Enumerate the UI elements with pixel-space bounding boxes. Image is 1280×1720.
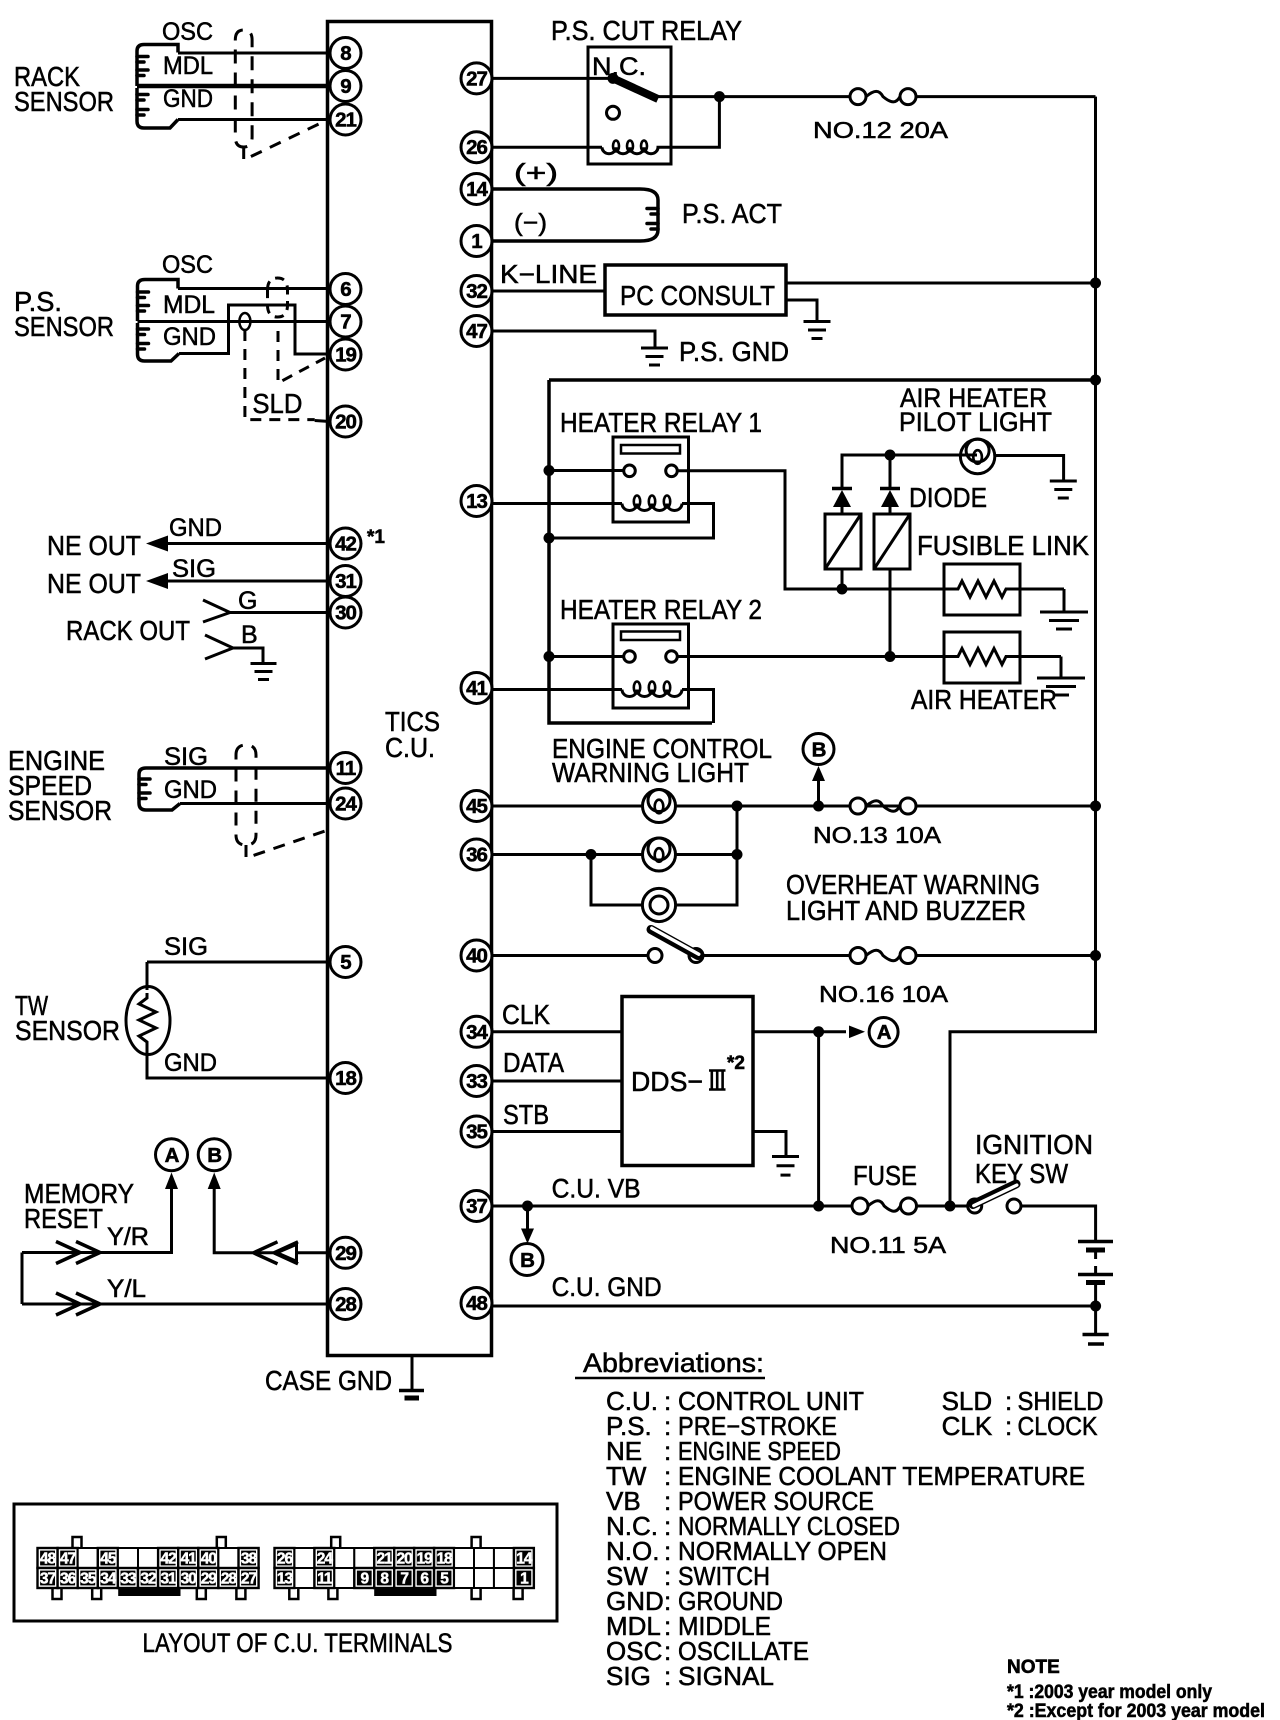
svg-text:29: 29 (201, 1571, 218, 1588)
svg-text:6: 6 (340, 278, 351, 301)
svg-text:MDL: MDL (163, 52, 213, 80)
ess shield drain (dashed) to pin 24 (246, 830, 328, 858)
double chevron on pin 29 wire pointing left (254, 1242, 278, 1264)
svg-text:SENSOR: SENSOR (14, 311, 114, 342)
wire pin 42 to NE OUT GND (166, 542, 330, 545)
wire relay coil feed loop (671, 97, 719, 148)
wire rack OSC to pin 8 (178, 52, 330, 55)
tw sensor thermistor ellipse (126, 987, 170, 1055)
junction DDS output junction (813, 1026, 824, 1037)
wire D1 bottom lead (841, 569, 844, 589)
svg-text:GND: GND (164, 776, 217, 804)
svg-text:36: 36 (60, 1571, 77, 1588)
wire pin 33 DATA to DDS (492, 1080, 622, 1083)
svg-text:SIG: SIG (606, 1661, 651, 1691)
wire heater left rail + bottom (549, 380, 712, 723)
svg-text:30: 30 (335, 602, 356, 625)
svg-text:48: 48 (40, 1551, 57, 1568)
wire branch to buzzer left (591, 855, 642, 906)
arrow up to B (812, 766, 825, 781)
svg-text:HEATER RELAY 2: HEATER RELAY 2 (560, 594, 762, 625)
pin 24 (330, 788, 361, 819)
junction lamp1 junction (732, 801, 743, 812)
svg-text:B: B (812, 739, 826, 762)
svg-text::: : (664, 1661, 671, 1691)
CASE GND label (265, 1365, 392, 1396)
wire Y/L wire to pin 28 (22, 1303, 330, 1306)
relay contact pivot dot (608, 73, 619, 84)
svg-text:NE OUT: NE OUT (47, 568, 141, 599)
svg-text:(+): (+) (514, 159, 558, 187)
svg-text:P.S. ACT: P.S. ACT (682, 198, 782, 229)
svg-text:KEY SW: KEY SW (975, 1158, 1068, 1189)
svg-text:P.S. GND: P.S. GND (679, 336, 789, 367)
diode D1 (832, 489, 852, 515)
relay contact arm (closed) (613, 78, 658, 99)
svg-text:SENSOR: SENSOR (15, 1015, 120, 1046)
ps shield capsule (dashed) (268, 278, 288, 317)
battery (1078, 1242, 1113, 1345)
case ground symbol (399, 1355, 424, 1398)
wire relay1 contact feed (549, 469, 624, 472)
svg-text:SIG: SIG (172, 555, 216, 583)
svg-text:35: 35 (80, 1571, 97, 1588)
junction pin36 branch junction (586, 849, 597, 860)
ground air heater (1037, 678, 1085, 695)
svg-text:GND: GND (164, 1049, 217, 1077)
wire pin 27 to relay contact (492, 77, 613, 80)
svg-text:*2: *2 (727, 1053, 745, 1074)
svg-text:SIGNAL: SIGNAL (678, 1661, 774, 1691)
svg-text:A: A (165, 1144, 180, 1167)
svg-text:13: 13 (277, 1571, 294, 1588)
svg-text:19: 19 (417, 1551, 434, 1568)
svg-text:DIODE: DIODE (909, 482, 987, 513)
overheat buzzer (double circle) (642, 888, 675, 921)
svg-text:SENSOR: SENSOR (14, 86, 114, 117)
ground DDS (772, 1157, 799, 1176)
wire fusible link ground lead (1063, 589, 1066, 611)
svg-text:38: 38 (241, 1551, 258, 1568)
svg-text:7: 7 (340, 311, 351, 334)
wire fuse NO.11 to key switch (917, 1205, 969, 1208)
svg-text:48: 48 (466, 1292, 487, 1315)
wire pin 40 to switch (492, 954, 648, 957)
pin 5 (330, 947, 361, 978)
svg-text:GND: GND (163, 85, 213, 113)
wire pin 34 CLK to DDS (492, 1030, 622, 1033)
svg-text:42: 42 (335, 533, 356, 556)
heater relay 2 box (613, 624, 689, 708)
pin 36 (461, 839, 492, 870)
svg-text:30: 30 (181, 1571, 197, 1588)
svg-text:27: 27 (241, 1571, 257, 1588)
svg-text:42: 42 (161, 1551, 177, 1568)
svg-text:47: 47 (466, 320, 487, 343)
svg-text:K−LINE: K−LINE (500, 259, 597, 289)
wire tw top lead (146, 962, 149, 990)
wire SLD to pin 20 solid (315, 421, 330, 422)
arrow NE OUT SIG (146, 573, 168, 589)
TICS C.U. control unit box (328, 22, 492, 1356)
svg-text:WARNING LIGHT: WARNING LIGHT (552, 757, 749, 788)
svg-text:A: A (877, 1021, 892, 1044)
pin 20 (330, 406, 361, 437)
open triangle arrow on pin 29 wire (277, 1244, 297, 1261)
pin 34 (461, 1016, 492, 1047)
SLD dashed wire to pin 20 (245, 330, 315, 420)
svg-text:5: 5 (340, 951, 351, 974)
junction bus x heater feed (1090, 375, 1101, 386)
svg-text:LIGHT AND BUZZER: LIGHT AND BUZZER (786, 895, 1026, 926)
wire fuse NO.16 to bus (916, 954, 1096, 957)
svg-text:32: 32 (140, 1571, 156, 1588)
svg-text::: : (1005, 1411, 1012, 1441)
label TICS C.U. (385, 706, 440, 763)
svg-text:*1: *1 (367, 527, 385, 548)
connector layout outer box (14, 1504, 557, 1621)
abbreviation list column 1 (606, 1386, 1085, 1691)
wire B arrow stem (817, 780, 820, 806)
junction relay output junction (714, 91, 725, 102)
pin 6 (330, 274, 361, 305)
svg-text:CASE GND: CASE GND (265, 1365, 392, 1396)
ground P.S. GND (641, 348, 668, 365)
junction rail x relay1 contact (544, 465, 555, 476)
svg-text:LAYOUT OF C.U. TERMINALS: LAYOUT OF C.U. TERMINALS (143, 1628, 453, 1658)
wire relay2 contact feed (549, 655, 624, 658)
PC CONSULT box (605, 265, 786, 315)
wire PC CONSULT to bus (786, 282, 1096, 285)
label IGNITION KEY SW (975, 1129, 1093, 1189)
wire pin 29 wire to B (214, 1187, 330, 1253)
wire pin 32 K-LINE (492, 290, 605, 293)
svg-text:G: G (238, 587, 257, 615)
label RACK SENSOR (14, 61, 114, 117)
svg-text:31: 31 (335, 570, 356, 593)
svg-text:11: 11 (336, 757, 356, 780)
svg-text:37: 37 (466, 1195, 487, 1218)
chevrons on Y/L wire (56, 1293, 80, 1315)
fusible link box (944, 564, 1020, 615)
ess shield capsule (dashed) (236, 745, 256, 845)
pilot light bulb (960, 439, 994, 474)
svg-text:B: B (241, 621, 258, 649)
label TW SENSOR (15, 990, 120, 1046)
pin 48 (461, 1288, 492, 1319)
svg-text:B: B (520, 1249, 534, 1272)
svg-text:CLOCK: CLOCK (1018, 1411, 1099, 1441)
wire pin 31 to NE OUT SIG (166, 580, 330, 583)
wire PC CONSULT ground lead (786, 300, 817, 321)
svg-text:34: 34 (466, 1021, 488, 1044)
wire diode2 top (889, 455, 892, 489)
pin 47 (461, 316, 492, 347)
DDS-III box (622, 997, 753, 1166)
svg-text:21: 21 (335, 109, 356, 132)
svg-text:24: 24 (335, 793, 357, 816)
svg-text:SENSOR: SENSOR (8, 795, 112, 826)
arrow up to B (208, 1173, 221, 1190)
svg-text:Y/L: Y/L (107, 1275, 146, 1303)
NOTE block (1007, 1657, 1265, 1720)
pin 29 (330, 1237, 361, 1268)
pin 40 (461, 940, 492, 971)
wire A tap down to VB line (817, 1032, 820, 1206)
svg-text:36: 36 (466, 844, 487, 867)
warning lamp 1 (643, 790, 676, 823)
wire key switch to battery (1021, 1206, 1096, 1240)
svg-text:(−): (−) (514, 209, 547, 237)
dropping resistor box D2 (874, 514, 910, 569)
ignition key switch contacts (968, 1199, 982, 1213)
wire pin 26 to relay coil (492, 146, 602, 149)
chevrons on Y/R wire (56, 1242, 80, 1264)
svg-text:41: 41 (181, 1551, 198, 1568)
svg-text:RACK OUT: RACK OUT (66, 615, 190, 646)
svg-text:45: 45 (466, 795, 487, 818)
pin 26 (461, 132, 492, 163)
svg-text:P.S. CUT RELAY: P.S. CUT RELAY (551, 15, 742, 46)
shield drain wire to pin 21 (dashed) (244, 121, 325, 160)
rack sensor shield (dashed capsule) (235, 30, 252, 147)
label MEMORY RESET (24, 1178, 134, 1234)
svg-text:*1 :2003 year model only: *1 :2003 year model only (1007, 1682, 1212, 1703)
wire air heater ground lead (1060, 657, 1063, 678)
wire pin 36 to lamp2 (492, 853, 642, 856)
fuse NO.11 (852, 1198, 917, 1214)
node B circle (bottom) (511, 1244, 543, 1276)
pin 18 (330, 1063, 361, 1094)
ps shield small oval on MDL wire (239, 313, 250, 330)
svg-text:DATA: DATA (503, 1047, 564, 1078)
wire pilot light to ground (995, 456, 1064, 481)
wire fuse NO.12 to bus (916, 95, 1096, 98)
wire diode top rail (842, 455, 977, 489)
pin 21 (330, 104, 361, 135)
svg-text:C.U.: C.U. (385, 732, 435, 763)
label DDS-III *2 (631, 1053, 745, 1097)
svg-text:35: 35 (466, 1121, 487, 1144)
wire relay1 coil return (549, 504, 714, 539)
svg-text:RESET: RESET (24, 1203, 103, 1234)
svg-text:20: 20 (335, 411, 356, 434)
fusible link resistor zigzag (944, 581, 1064, 597)
svg-text:28: 28 (221, 1571, 238, 1588)
P.S. ACT actuator symbol (492, 189, 658, 241)
svg-text:DDS−: DDS− (631, 1066, 703, 1097)
svg-text:24: 24 (317, 1551, 334, 1568)
wire relay1 output to fusible link (677, 471, 944, 589)
pin 31 (330, 566, 361, 597)
pin 9 (330, 71, 361, 102)
fuse NO.13 (850, 798, 916, 814)
relay 2 coil (622, 690, 682, 697)
wire pin 41 to relay2 coil (491, 688, 622, 691)
junction D1 x relay1 output (837, 584, 848, 595)
ground pc consult (804, 322, 831, 339)
tw sensor zigzag element (139, 993, 156, 1048)
pin 19 (330, 339, 361, 370)
branch fork G (203, 600, 230, 622)
wire C.U. VB line (492, 1205, 852, 1208)
junction A tap x VB (813, 1201, 824, 1212)
pin 14 (461, 174, 492, 205)
label P.S. SENSOR (14, 286, 114, 342)
pin 30 (330, 597, 361, 628)
junction rail x relay2 contact (544, 651, 555, 662)
svg-text:FUSIBLE LINK: FUSIBLE LINK (917, 530, 1089, 561)
svg-text:SIG: SIG (164, 933, 208, 961)
pin 41 (461, 673, 492, 704)
svg-text:1: 1 (471, 230, 482, 253)
wire C.U. GND line (492, 1305, 1096, 1308)
svg-text:14: 14 (466, 178, 488, 201)
svg-text:34: 34 (100, 1571, 117, 1588)
wire lamp1 to fuse NO.13 to bus (676, 805, 1096, 808)
pin 27 (461, 63, 492, 94)
wire pin 13 to relay1 coil (491, 502, 622, 505)
relay coil (602, 147, 671, 154)
junction pin37 B tap (522, 1201, 533, 1212)
pin 11 (330, 753, 361, 784)
wire pin 35 STB to DDS (492, 1130, 622, 1133)
svg-text:CLK: CLK (502, 999, 550, 1030)
svg-text:STB: STB (503, 1099, 549, 1130)
svg-text:32: 32 (466, 280, 487, 303)
svg-text:NO.16 10A: NO.16 10A (819, 981, 949, 1007)
svg-text:IGNITION: IGNITION (975, 1129, 1093, 1160)
wire DDS output to A (753, 1030, 846, 1033)
svg-text:NE OUT: NE OUT (47, 530, 141, 561)
svg-text:41: 41 (466, 677, 487, 700)
svg-text:B: B (207, 1144, 221, 1167)
svg-text:Y/R: Y/R (107, 1223, 149, 1251)
svg-text:PILOT LIGHT: PILOT LIGHT (899, 407, 1052, 437)
dropping resistor box D1 (825, 514, 861, 569)
ps shield drain (dashed) to pin 19 (278, 331, 325, 383)
connector grid left (38, 1537, 259, 1599)
heater relay 1 box (613, 437, 689, 522)
wire rack GND to pin 21 (178, 118, 330, 121)
svg-text:SLD: SLD (252, 388, 302, 419)
arrow right to A (849, 1026, 865, 1039)
wire pin 45 to lamp1 (492, 805, 642, 808)
svg-text:27: 27 (466, 67, 487, 90)
wire right power bus (950, 97, 1096, 1206)
wire junction drop to buzzer right (676, 806, 737, 905)
svg-text:45: 45 (100, 1551, 117, 1568)
svg-text:33: 33 (120, 1571, 137, 1588)
wire memory reset left vertical (21, 1253, 24, 1305)
svg-text:HEATER RELAY 1: HEATER RELAY 1 (560, 407, 762, 438)
pin 28 (330, 1289, 361, 1320)
node A circle (DDS) (869, 1018, 898, 1047)
wire tw SIG to pin 5 (147, 961, 330, 964)
pin 35 (461, 1116, 492, 1147)
svg-text:NO.13 10A: NO.13 10A (813, 822, 942, 848)
wire lamp2 to junction (676, 853, 738, 856)
abbreviation list column 2 (942, 1386, 1104, 1441)
rack sensor connector symbol (137, 45, 178, 129)
P.S. cut relay box (588, 47, 671, 164)
svg-text:20: 20 (397, 1551, 413, 1568)
fuse NO.12 (850, 89, 916, 105)
svg-text:9: 9 (340, 75, 351, 98)
svg-text:13: 13 (466, 490, 487, 513)
junction B tap junction (813, 801, 824, 812)
svg-text:33: 33 (466, 1070, 487, 1093)
svg-text:NO.11 5A: NO.11 5A (830, 1232, 947, 1258)
junction diode2 x pilot light wire (885, 450, 896, 461)
relay 1 top bar (621, 445, 680, 454)
wire relay2 coil return (682, 690, 714, 724)
pin 1 (461, 226, 492, 257)
svg-text:31: 31 (161, 1571, 178, 1588)
svg-text:C.U. GND: C.U. GND (552, 1272, 662, 1302)
relay 1 coil (622, 504, 682, 511)
junction rail x relay1 coil (544, 533, 555, 544)
svg-text:CLK: CLK (942, 1411, 993, 1441)
svg-text:NOTE: NOTE (1007, 1657, 1060, 1678)
relay N.O. contact circle (607, 106, 620, 119)
node B circle (198, 1139, 230, 1171)
svg-text:8: 8 (340, 42, 351, 65)
pin 42 (330, 528, 361, 559)
svg-text:C.U. VB: C.U. VB (552, 1174, 641, 1204)
svg-text:NO.12 20A: NO.12 20A (813, 117, 949, 143)
wire rack MDL to pin 9 (137, 84, 330, 89)
P.S. sensor connector symbol (138, 280, 180, 362)
svg-text:28: 28 (335, 1293, 356, 1316)
svg-text:18: 18 (436, 1551, 453, 1568)
svg-text:47: 47 (60, 1551, 76, 1568)
arrow NE OUT GND (146, 536, 168, 552)
wire ps MDL to pin 7 (138, 320, 331, 323)
svg-text:7: 7 (400, 1571, 408, 1588)
svg-text:GND: GND (163, 323, 216, 351)
svg-text:OSC: OSC (162, 251, 213, 279)
svg-text:26: 26 (277, 1551, 294, 1568)
svg-text:14: 14 (516, 1551, 533, 1568)
branch fork B (205, 635, 233, 659)
pin 13 (461, 486, 492, 517)
svg-text:37: 37 (40, 1571, 56, 1588)
ground fusible link (1040, 612, 1088, 629)
junction bus x VB (945, 1201, 956, 1212)
svg-text:11: 11 (317, 1571, 333, 1588)
wire D2 bottom lead (889, 569, 892, 657)
arrow up to A (165, 1173, 178, 1190)
pin 33 (461, 1066, 492, 1097)
pin 8 (330, 38, 361, 69)
switch contact circles (648, 949, 662, 963)
wire switch to fuse NO.16 (703, 954, 850, 957)
svg-text:*2 :Except for 2003 year model: *2 :Except for 2003 year model (1007, 1701, 1265, 1720)
junction bus x NO.16 (1090, 950, 1101, 961)
svg-text:19: 19 (335, 344, 356, 367)
ground pilot light (1050, 481, 1077, 498)
wire ps GND bridge to pin 19 (179, 305, 330, 354)
label OVERHEAT WARNING LIGHT AND BUZZER (786, 869, 1040, 926)
fuse NO.16 (850, 948, 916, 964)
svg-text:SIG: SIG (164, 743, 208, 771)
connector grid right (275, 1537, 534, 1599)
wire DDS ground lead (753, 1132, 786, 1156)
wire pin 30 to RACK OUT G (230, 611, 330, 614)
label AIR HEATER PILOT LIGHT (899, 383, 1052, 437)
svg-text:29: 29 (335, 1242, 356, 1265)
